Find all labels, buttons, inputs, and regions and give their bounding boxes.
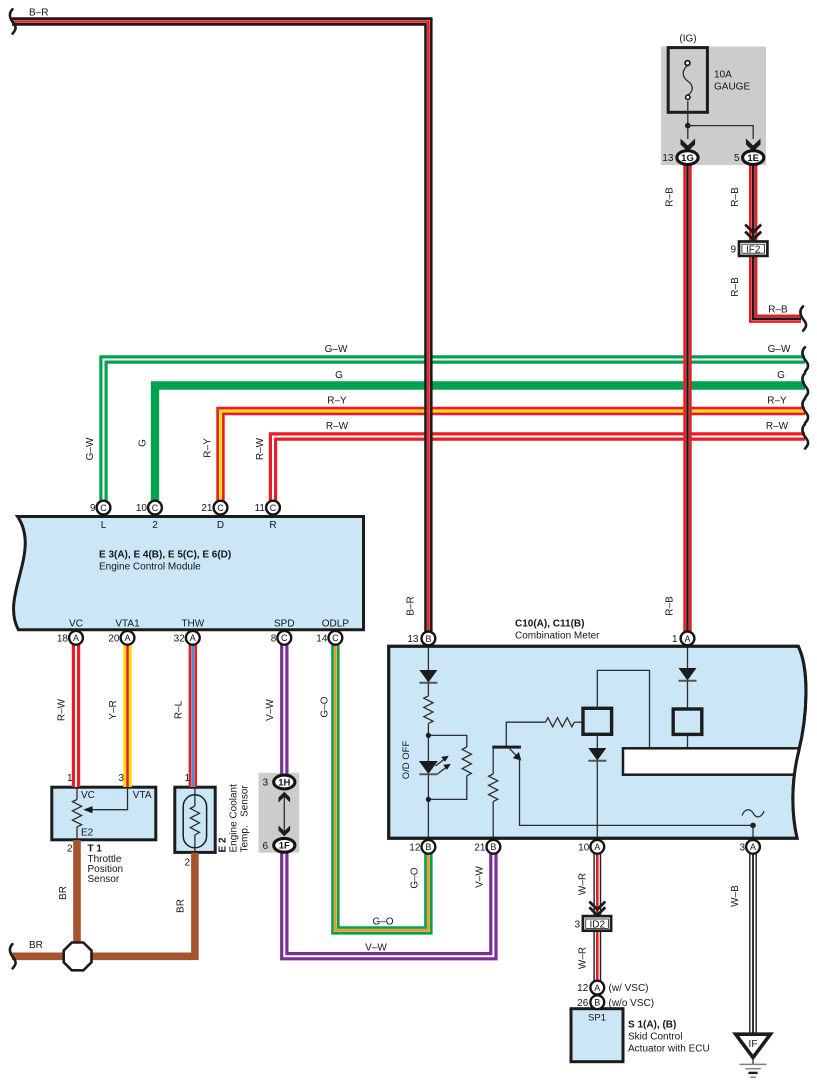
svg-text:L: L	[101, 520, 107, 531]
svg-text:V–W: V–W	[365, 943, 387, 954]
wire G-O ECM ODLP to meter pin 12	[335, 645, 428, 931]
wire branch to 1E	[688, 126, 753, 139]
svg-text:(w/o VSC): (w/o VSC)	[609, 998, 655, 1009]
wire from pin 1	[687, 648, 689, 669]
wire Y-R ECM VTA1 to T1	[123, 645, 131, 787]
square element (right meter coil)	[673, 709, 702, 734]
svg-text:SPD: SPD	[274, 619, 295, 630]
meter needle bar	[623, 748, 803, 774]
ECM pin circle 9C	[97, 501, 111, 515]
wiper arm from VTA	[91, 788, 128, 810]
ECM pin circle 10C	[148, 501, 162, 515]
wire V-W ECM SPD to meter pin 21	[280, 645, 288, 776]
squiggle terminator G right	[802, 373, 808, 397]
svg-text:IF: IF	[749, 1039, 758, 1050]
svg-text:R: R	[269, 520, 276, 531]
svg-text:C: C	[270, 503, 277, 513]
redraw meter border	[389, 646, 806, 838]
wire to coil L	[574, 721, 583, 723]
meter pin circle 10A	[590, 840, 604, 854]
svg-text:R–L: R–L	[173, 700, 184, 719]
svg-text:R–W: R–W	[255, 437, 266, 460]
potentiometer in T1	[76, 788, 78, 800]
svg-text:10: 10	[578, 842, 590, 853]
svg-text:G: G	[335, 370, 343, 381]
wire BR from T1 E2 pin to junction	[73, 840, 81, 956]
svg-text:O/D OFF: O/D OFF	[401, 741, 412, 780]
svg-text:R–Y: R–Y	[327, 396, 347, 407]
svg-text:13: 13	[662, 153, 674, 164]
svg-text:D: D	[217, 520, 224, 531]
svg-text:(w/ VSC): (w/ VSC)	[609, 983, 649, 994]
svg-text:IF2: IF2	[746, 244, 761, 255]
svg-text:B: B	[425, 842, 431, 852]
transistor Q1 base bar	[492, 746, 521, 749]
svg-text:Skid Control: Skid Control	[628, 1032, 682, 1043]
svg-text:1H: 1H	[278, 777, 290, 788]
svg-text:R–B: R–B	[665, 187, 676, 207]
svg-text:G: G	[138, 439, 149, 447]
svg-text:R–W: R–W	[57, 698, 68, 721]
svg-text:C: C	[217, 503, 224, 513]
svg-text:A: A	[684, 634, 690, 644]
svg-text:BR: BR	[58, 886, 69, 900]
svg-text:Y–R: Y–R	[108, 700, 119, 719]
node	[426, 797, 431, 802]
ECM pin circle 8C	[277, 631, 291, 645]
junction node	[685, 123, 691, 129]
svg-text:14: 14	[316, 633, 328, 644]
svg-text:GAUGE: GAUGE	[714, 82, 750, 93]
svg-text:C: C	[100, 503, 107, 513]
svg-text:W–R: W–R	[577, 947, 588, 969]
svg-text:A: A	[190, 633, 196, 643]
squiggle terminator R-B right	[800, 306, 806, 330]
svg-text:20: 20	[108, 633, 120, 644]
svg-text:Temp. Sensor: Temp. Sensor	[240, 785, 251, 853]
node at pin3 line	[750, 823, 756, 829]
ECM pin circle 11C	[266, 501, 280, 515]
svg-text:B–R: B–R	[406, 596, 417, 615]
svg-text:6: 6	[262, 841, 268, 852]
double chevron on R-B	[745, 225, 761, 233]
wire BR horizontal + up to E2 sensor	[12, 853, 195, 957]
diode D2	[588, 748, 606, 761]
wire R-B from 1G to meter pin 1	[683, 164, 691, 632]
svg-text:32: 32	[174, 633, 186, 644]
wire W-R meter pin 10 to skid control	[593, 854, 601, 981]
svg-text:1: 1	[184, 773, 190, 784]
wire R-W horizontal + drop to pin 11	[273, 437, 805, 501]
svg-text:A: A	[750, 842, 756, 852]
wire W-B meter pin 3 to IF ground	[749, 854, 757, 1034]
svg-text:ID2: ID2	[590, 920, 606, 931]
svg-text:3: 3	[118, 773, 124, 784]
wire R-B from 1E through IF2	[753, 164, 801, 319]
fuse block (IG) background	[661, 47, 766, 166]
svg-text:B: B	[490, 842, 496, 852]
arrow into 1E	[746, 139, 761, 152]
octagon splice junction	[64, 943, 92, 971]
svg-text:8: 8	[271, 633, 277, 644]
svg-text:1G: 1G	[681, 153, 694, 164]
squiggle terminator G-W right	[802, 347, 808, 371]
svg-text:Combination Meter: Combination Meter	[515, 631, 600, 642]
junction connector ID2	[583, 916, 611, 931]
squiggle terminator R-W right	[802, 424, 808, 448]
svg-text:W–R: W–R	[577, 873, 588, 895]
svg-text:1F: 1F	[279, 841, 290, 852]
meter pin circle 3A	[746, 840, 760, 854]
ECM pin circle 18A	[69, 631, 83, 645]
svg-text:1E: 1E	[747, 153, 759, 164]
svg-text:VTA: VTA	[133, 790, 152, 801]
double arrow between 1H and 1F	[283, 794, 285, 834]
svg-text:A: A	[73, 633, 79, 643]
svg-text:21: 21	[201, 503, 213, 514]
transistor collector diagonal w/ arrow	[510, 749, 518, 757]
meter pin circle 13B	[422, 632, 436, 646]
svg-text:C: C	[152, 503, 159, 513]
svg-text:9: 9	[90, 503, 96, 514]
svg-text:B–R: B–R	[29, 8, 48, 19]
ECM pin circle 32A	[186, 631, 200, 645]
SP1 Skid Control box	[571, 1009, 623, 1062]
svg-text:T 1: T 1	[88, 844, 103, 855]
connector block 1H/1F background	[259, 773, 300, 853]
resistor R1	[424, 696, 433, 723]
svg-text:G–O: G–O	[319, 696, 330, 717]
svg-text:R–Y: R–Y	[203, 438, 214, 458]
svg-text:13: 13	[407, 634, 419, 645]
svg-text:VC: VC	[69, 619, 83, 630]
wire R-W ECM VC to T1	[72, 645, 80, 787]
junction connector IF2	[739, 242, 767, 256]
svg-text:3: 3	[262, 778, 268, 789]
svg-text:26: 26	[577, 998, 589, 1009]
svg-text:BR: BR	[29, 940, 43, 951]
svg-text:A: A	[594, 983, 600, 993]
ECM pin circle 21C	[214, 501, 228, 515]
svg-text:12: 12	[409, 842, 421, 853]
svg-text:3: 3	[739, 842, 745, 853]
wire R-Y horizontal + drop to pin 21	[221, 411, 806, 501]
svg-text:11: 11	[255, 503, 266, 514]
svg-text:G: G	[777, 370, 785, 381]
meter internal: wire from pin 13	[427, 648, 429, 671]
svg-text:V–W: V–W	[265, 699, 276, 721]
svg-text:G–O: G–O	[410, 867, 421, 888]
ECM pin circle 20A	[121, 631, 135, 645]
diode D3	[679, 668, 697, 681]
wire B-R main	[12, 22, 428, 632]
svg-text:1: 1	[67, 773, 73, 784]
wire	[427, 683, 429, 696]
connector circle 26B	[590, 995, 604, 1009]
svg-text:C: C	[281, 633, 288, 643]
svg-text:E 3(A), E 4(B), E 5(C), E 6(D): E 3(A), E 4(B), E 5(C), E 6(D)	[99, 550, 231, 561]
svg-text:B: B	[425, 634, 431, 644]
wire G-W horizontal + drop to pin 9	[104, 360, 806, 501]
svg-text:G–W: G–W	[85, 437, 96, 460]
E2 Engine Coolant Temp Sensor box	[175, 787, 215, 852]
svg-text:(IG): (IG)	[679, 34, 696, 45]
wire to pin 3	[752, 825, 754, 839]
connector circle 12A	[590, 981, 604, 995]
wire	[427, 723, 429, 761]
ground bars	[740, 1063, 767, 1065]
transistor emitter leg + resistor R4	[492, 749, 494, 774]
node	[426, 733, 431, 738]
svg-text:Engine Control Module: Engine Control Module	[99, 562, 201, 573]
svg-text:G–W: G–W	[768, 344, 791, 355]
connector oval 1E	[743, 151, 764, 165]
svg-text:5: 5	[734, 153, 740, 164]
wire to pin 12	[427, 774, 429, 839]
resistor R3 (base)	[546, 718, 575, 727]
T1 Throttle Position Sensor box	[52, 787, 156, 840]
svg-text:G–O: G–O	[372, 917, 393, 928]
svg-text:10A: 10A	[714, 70, 732, 81]
wire G horizontal + drop to pin 10	[155, 386, 805, 501]
svg-text:E2: E2	[81, 828, 94, 839]
wire R-L ECM THW to E2	[189, 645, 197, 787]
transistor Q1 base feed	[506, 722, 545, 746]
svg-text:R–B: R–B	[730, 187, 741, 207]
wire over the top of left coil	[597, 670, 649, 748]
LED O/D OFF	[419, 761, 438, 774]
Combination Meter box C10/C11	[389, 646, 806, 838]
svg-text:10: 10	[136, 503, 148, 514]
resistor in E2	[190, 806, 199, 835]
svg-text:Engine Coolant: Engine Coolant	[229, 784, 240, 853]
fuse 10A GAUGE	[668, 48, 707, 113]
wire fuse output	[687, 101, 689, 139]
double chevron on W-R	[589, 902, 605, 910]
svg-text:ODLP: ODLP	[322, 619, 350, 630]
svg-text:3: 3	[574, 919, 580, 930]
svg-text:V–W: V–W	[475, 866, 486, 888]
svg-text:1: 1	[672, 634, 678, 645]
svg-text:A: A	[594, 842, 600, 852]
svg-text:Sensor: Sensor	[88, 874, 120, 885]
arrow into 1G	[681, 139, 696, 152]
svg-text:R–B: R–B	[768, 305, 788, 316]
svg-text:E 2: E 2	[218, 837, 229, 852]
ECM box E3/E4/E5/E6 Engine Control Module	[14, 517, 364, 630]
square element (left meter coil)	[583, 708, 612, 734]
svg-text:R–B: R–B	[730, 277, 741, 297]
svg-text:BR: BR	[175, 899, 186, 913]
svg-text:VTA1: VTA1	[115, 619, 140, 630]
meter pin circle 1A	[681, 632, 695, 646]
svg-text:R–W: R–W	[326, 421, 349, 432]
tilde ground symbol inside meter	[742, 810, 764, 817]
sensor stadium	[183, 795, 206, 848]
ECM pin circle 14C	[329, 631, 343, 645]
svg-text:2: 2	[67, 844, 73, 855]
svg-text:W–B: W–B	[730, 885, 741, 907]
svg-text:G–W: G–W	[325, 344, 348, 355]
svg-text:2: 2	[184, 858, 190, 869]
wire below left coil	[596, 734, 598, 748]
svg-text:Actuator with ECU: Actuator with ECU	[628, 1044, 710, 1055]
connector oval 1G	[677, 151, 698, 165]
svg-text:S 1(A), (B): S 1(A), (B)	[628, 1020, 676, 1031]
squiggle terminator B-R left	[10, 9, 16, 33]
parallel resistor branch	[428, 735, 466, 747]
LED arrows	[436, 760, 444, 766]
svg-text:VC: VC	[81, 790, 95, 801]
meter pin circle 12B	[422, 840, 436, 854]
ground triangle IF	[736, 1034, 771, 1057]
svg-text:9: 9	[730, 244, 736, 255]
svg-text:21: 21	[474, 842, 486, 853]
squiggle terminator R-Y right	[802, 399, 808, 423]
svg-text:A: A	[124, 633, 130, 643]
svg-text:18: 18	[57, 633, 69, 644]
svg-text:C: C	[332, 633, 339, 643]
meter pin circle 21B	[487, 840, 501, 854]
svg-text:2: 2	[152, 520, 158, 531]
squiggle terminator BR left	[10, 944, 16, 968]
svg-text:C10(A), C11(B): C10(A), C11(B)	[515, 619, 584, 630]
connector oval 1F	[274, 838, 295, 852]
connector oval 1H	[274, 775, 295, 789]
svg-text:R–Y: R–Y	[767, 396, 787, 407]
svg-text:R–W: R–W	[766, 421, 789, 432]
svg-text:SP1: SP1	[588, 1013, 606, 1024]
svg-text:B: B	[594, 998, 600, 1008]
svg-text:12: 12	[577, 983, 589, 994]
svg-text:THW: THW	[181, 619, 204, 630]
diode D1	[419, 670, 437, 683]
svg-text:R–B: R–B	[665, 596, 676, 616]
